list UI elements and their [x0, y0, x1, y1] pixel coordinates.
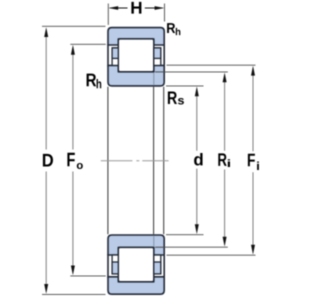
label Fo F — [67, 153, 74, 166]
inner ring (bottom) — [108, 235, 164, 255]
D arrowhead up — [44, 27, 48, 37]
label Rh right R — [167, 23, 175, 33]
bore seam line middle — [153, 87, 155, 235]
centerline — [101, 160, 169, 162]
Ri arrowhead up — [223, 73, 227, 83]
D arrowhead down — [44, 284, 48, 294]
bore edge line left — [107, 87, 109, 235]
label Fi F — [248, 154, 255, 166]
label H — [131, 2, 141, 14]
bearing side face borders (bottom half) — [108, 254, 164, 278]
cage left box (top) — [112, 48, 118, 66]
bore edge line right — [163, 87, 165, 235]
H extension line right — [164, 4, 166, 22]
seam of loose flange ring (top) — [154, 72, 164, 85]
d arrowhead up — [195, 87, 199, 97]
cage right box (bottom) — [154, 255, 161, 274]
H arrowhead left — [109, 6, 119, 10]
seam of loose flange ring (bottom) — [154, 236, 164, 248]
label Rh left R — [87, 74, 97, 87]
Fi extension line bottom — [167, 254, 256, 256]
label D — [43, 154, 53, 167]
inner ring (top) — [108, 65, 164, 86]
Fo extension line top — [70, 43, 106, 45]
label Ri R — [218, 153, 226, 166]
label Fi i — [257, 162, 259, 171]
Fo dimension line — [72, 54, 74, 267]
Ri dimension line — [224, 81, 226, 237]
label Rh left h — [97, 79, 102, 88]
label Rs s — [178, 98, 184, 105]
H dimension line — [110, 7, 163, 9]
label Fo o — [77, 163, 83, 169]
cage right box (top) — [154, 48, 161, 66]
Fi extension line top — [167, 64, 256, 66]
label Rh right h — [176, 28, 181, 35]
Ri extension line bottom — [155, 246, 228, 248]
roller (top) — [118, 39, 154, 72]
H extension line left — [107, 4, 109, 25]
label d — [194, 153, 203, 166]
cage left box (bottom) — [112, 255, 118, 274]
Fi arrowhead down — [251, 245, 255, 255]
Ri arrowhead down — [223, 237, 227, 247]
d arrowhead down — [195, 224, 199, 234]
D extension line bottom — [42, 293, 106, 295]
H arrowhead right — [155, 6, 165, 10]
Ri extension line top — [155, 71, 228, 73]
label Ri i — [228, 159, 230, 167]
outer ring (bottom) — [108, 277, 164, 294]
d dimension line — [196, 96, 198, 226]
bearing side face borders (top half) — [108, 44, 164, 66]
D extension line top — [42, 25, 106, 27]
d extension line top — [166, 85, 204, 87]
Fo extension line bottom — [70, 275, 106, 277]
label Rs R — [168, 92, 177, 105]
outer ring (top) — [108, 28, 164, 45]
D dimension line — [45, 36, 47, 286]
Fo arrowhead down — [71, 266, 75, 276]
d extension line bottom — [166, 234, 204, 236]
roller (bottom) — [118, 247, 154, 281]
Fi arrowhead up — [251, 66, 255, 76]
Fo arrowhead up — [71, 45, 75, 55]
Fi dimension line — [252, 75, 254, 246]
